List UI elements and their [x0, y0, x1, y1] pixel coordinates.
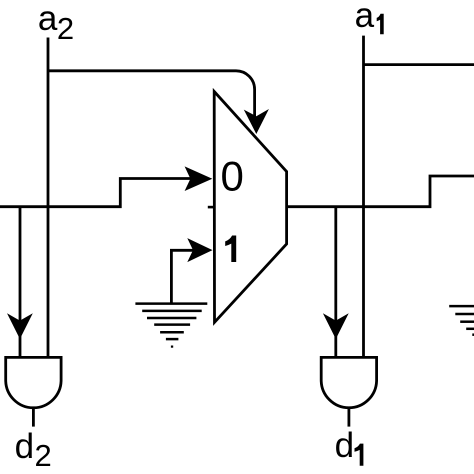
node a1 label	[355, 0, 384, 35]
arrowhead into mux input 1	[187, 238, 212, 262]
svg-text:d: d	[15, 427, 34, 466]
wire a1 branch right	[364, 63, 474, 66]
node d2 label	[15, 427, 52, 473]
ground GND center	[135, 304, 207, 347]
arrowhead into mux input 0	[185, 166, 213, 191]
svg-text:a: a	[355, 0, 375, 35]
wire mux output bus	[287, 176, 474, 207]
AND gate d2	[6, 357, 61, 407]
arrowhead into and2	[7, 313, 33, 339]
arrowhead into mux top	[244, 109, 269, 134]
svg-text:a: a	[38, 0, 58, 38]
wire a1 vertical	[362, 36, 365, 359]
svg-text:0: 0	[221, 152, 244, 199]
wire ground to mux input 1	[171, 250, 194, 302]
AND gate d1	[321, 357, 376, 407]
mux pin label 1	[225, 236, 236, 263]
wire and1 left input with tap	[334, 207, 337, 359]
wire and2 output stub	[32, 408, 35, 427]
wire a2 vertical	[47, 38, 50, 359]
svg-text:2: 2	[35, 438, 52, 473]
ground GND right (clipped)	[449, 306, 474, 335]
svg-text:2: 2	[57, 11, 74, 46]
wire input bus left	[0, 179, 192, 207]
node d1 label	[335, 426, 364, 466]
wire mux select stub	[208, 206, 214, 209]
wire and2 left input with tap	[19, 207, 22, 359]
wire a2 branch to mux top (curved)	[48, 71, 255, 118]
node a2 label	[38, 0, 74, 46]
wire and1 output stub	[347, 408, 350, 427]
multiplexer MUX1 body	[214, 92, 286, 323]
svg-text:d: d	[335, 426, 354, 465]
arrowhead into and1	[323, 313, 349, 339]
